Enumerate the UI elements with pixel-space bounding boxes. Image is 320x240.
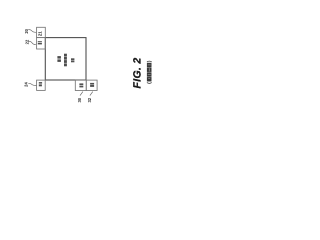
svg-text:22: 22 xyxy=(24,39,29,44)
svg-text:32: 32 xyxy=(87,97,92,102)
box B (below box A) xyxy=(37,38,46,49)
box D text xyxy=(79,83,83,87)
box B text xyxy=(38,41,42,44)
leader line for label 30 xyxy=(80,92,83,96)
box D (bottom row left box) xyxy=(75,80,86,90)
main block text line 3 xyxy=(71,58,74,62)
svg-text:24: 24 xyxy=(24,82,29,87)
svg-text:21: 21 xyxy=(37,31,42,36)
leader line for label 32 xyxy=(90,92,93,96)
main block rectangle xyxy=(45,38,86,80)
box C (bottom-left small box) xyxy=(37,80,46,90)
figure caption (related art) xyxy=(147,63,152,82)
box C text xyxy=(39,82,42,86)
svg-text:20: 20 xyxy=(24,28,29,33)
box A (top-left small box) xyxy=(37,27,46,37)
box E (bottom row right box) xyxy=(86,80,97,90)
svg-text:30: 30 xyxy=(77,97,82,102)
leader tilde for label 24 xyxy=(28,83,36,85)
box E text xyxy=(90,83,94,87)
leader tilde for label 22 xyxy=(29,41,36,44)
leader tilde for label 20 xyxy=(28,30,36,33)
main block text line 1 xyxy=(57,56,61,62)
svg-text:FIG. 2: FIG. 2 xyxy=(132,58,143,89)
main block text line 2 xyxy=(64,54,67,67)
